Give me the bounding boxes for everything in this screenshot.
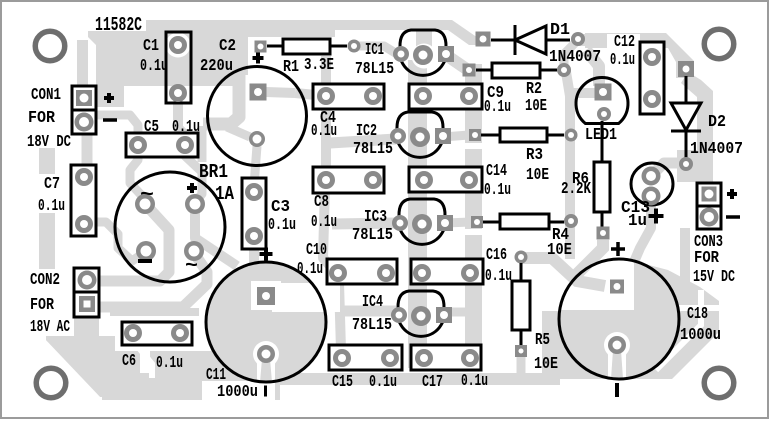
label C14 value (484, 181, 511, 200)
svg-text:0.1u: 0.1u (156, 354, 183, 373)
white clearance around IC1 center pad (412, 44, 437, 69)
svg-text:~: ~ (140, 184, 154, 207)
label C12 value (610, 51, 635, 70)
svg-text:C7: C7 (44, 175, 60, 194)
svg-text:0.1u: 0.1u (297, 260, 323, 279)
label C18 minus tick (615, 383, 619, 397)
wire left cap column C4-C8 (321, 56, 331, 176)
mounting hole top-right (704, 29, 734, 59)
label R4 (552, 226, 569, 245)
svg-text:C2: C2 (219, 37, 236, 56)
label IC4 (362, 293, 383, 312)
capacitor C4 (313, 84, 384, 109)
resistor R2 (463, 63, 572, 78)
wire C13 bottom pad down to C18 interior (634, 198, 651, 262)
wire rail stub to C17 left pad (413, 353, 424, 363)
label C5 (144, 118, 159, 137)
wire CON2 bottom pad to BR1 AC2 pad (99, 256, 207, 307)
wire pour stub to R2 left pad (449, 57, 468, 70)
svg-text:0.1u: 0.1u (172, 118, 200, 137)
svg-text:78L15: 78L15 (355, 60, 394, 79)
wire stub to IC3 in pad (332, 223, 396, 224)
label board number 11582C (95, 14, 142, 36)
mounting hole top-left (35, 31, 65, 61)
wire C13 top pad to D2 ring node (655, 163, 708, 172)
svg-text:C10: C10 (306, 241, 327, 260)
svg-text:1A: 1A (215, 183, 234, 205)
label C4 value (311, 122, 337, 141)
label C18 (687, 305, 708, 324)
label C18 plus (611, 242, 625, 256)
label CON3 plus (727, 189, 737, 199)
copper bottom strip right under C18 (542, 311, 719, 379)
svg-text:D1: D1 (550, 21, 570, 40)
label C11 value (217, 383, 267, 402)
label IC3 value (352, 226, 393, 245)
copper pour stub into IC1 center pad (416, 28, 432, 56)
svg-text:1N4007: 1N4007 (549, 48, 601, 67)
capacitor C8 (313, 167, 384, 193)
connector CON3 (697, 183, 721, 229)
svg-text:0.1u: 0.1u (140, 57, 168, 76)
label BR1 ac1 tilde (140, 184, 154, 207)
resistor R4 (471, 214, 578, 229)
white corner cut bottom-left (44, 338, 102, 399)
copper bottom strip thick left (102, 373, 280, 400)
label C4 (320, 109, 336, 128)
label C9 value (484, 98, 511, 117)
capacitor C7 (71, 165, 96, 236)
wire IC4 out to rail (444, 308, 470, 317)
label C6 value (156, 354, 183, 373)
wire R5 bottom pad to bottom rail (517, 356, 526, 376)
label R1 value (304, 56, 334, 75)
svg-text:CON1: CON1 (31, 86, 61, 105)
svg-text:11582C: 11582C (95, 14, 142, 36)
svg-text:78L15: 78L15 (353, 140, 393, 159)
svg-text:FOR: FOR (694, 249, 720, 268)
capacitor C17 (411, 345, 481, 370)
svg-text:18V AC: 18V AC (30, 318, 70, 337)
white window around C11 value label (202, 381, 275, 400)
diode D2 (671, 61, 701, 171)
svg-text:C1: C1 (143, 37, 159, 56)
capacitor C1 (166, 32, 192, 103)
wire C3 bottom pad down (249, 248, 259, 266)
capacitor C9 (409, 84, 482, 109)
op-amp regulator IC3 78L15 (392, 199, 453, 244)
copper pour stub to C12 top pad (644, 46, 660, 57)
label R1 (283, 58, 299, 77)
label CON2 18V AC (30, 318, 70, 337)
svg-text:1000u: 1000u (217, 383, 258, 402)
copper rail right segment 2 (465, 149, 482, 229)
label IC2 value (353, 140, 393, 159)
label C3 (271, 198, 290, 217)
svg-text:R3: R3 (526, 146, 543, 165)
svg-text:3.3E: 3.3E (304, 56, 334, 75)
svg-text:2.2K: 2.2K (561, 180, 592, 199)
capacitor C5 (126, 133, 198, 157)
wire C5 left pad down to BR1 AC1 pad (130, 146, 144, 198)
capacitor C2 interior traces (202, 68, 295, 186)
copper pour above C6 (110, 308, 199, 316)
label C13 plus (649, 209, 664, 224)
svg-text:78L15: 78L15 (352, 226, 393, 245)
svg-text:1000u: 1000u (680, 326, 721, 345)
svg-text:C12: C12 (614, 33, 635, 52)
label CON1 FOR (28, 109, 56, 128)
wire BR1 plus pad down to C11 plus (195, 210, 237, 266)
svg-text:FOR: FOR (28, 109, 56, 128)
label BR1 1A (215, 183, 234, 205)
svg-text:0.1u: 0.1u (461, 372, 488, 391)
label C10 (306, 241, 327, 260)
copper pour strip down right (to CON3) (681, 72, 713, 196)
wire IC1 out to R2 (446, 56, 461, 67)
label CON1 minus (103, 118, 117, 122)
resistor R3 (469, 128, 578, 142)
white channel right of C6 (139, 348, 152, 378)
wire CON1 plus pad strip up to pour (77, 40, 88, 86)
wire CON1 minus pad to BR1 (88, 115, 138, 152)
label CON1 18V DC (27, 133, 71, 152)
svg-text:1u: 1u (628, 212, 647, 231)
label R3 value (526, 166, 549, 185)
label C3 value (268, 216, 296, 235)
svg-text:C3: C3 (271, 198, 290, 217)
svg-text:18V DC: 18V DC (27, 133, 71, 152)
label C13 (621, 199, 650, 218)
svg-text:R5: R5 (535, 331, 550, 350)
label CON3 (694, 233, 723, 252)
label C10 value (297, 260, 323, 279)
label C7 (44, 175, 60, 194)
svg-text:FOR: FOR (30, 296, 55, 315)
label BR1 (199, 161, 228, 183)
label C7 value (38, 197, 65, 216)
wire C5 right pad down to BR1 plus pad (185, 146, 202, 201)
wire C2 pad to C4 left pad (295, 93, 326, 96)
copper pour band right (net rectified+) (585, 33, 694, 78)
label D1 value (549, 48, 601, 67)
svg-text:0.1u: 0.1u (610, 51, 635, 70)
svg-text:0.1u: 0.1u (311, 213, 337, 232)
mounting hole bottom-left (36, 368, 66, 398)
svg-text:10E: 10E (547, 241, 572, 260)
svg-text:R1: R1 (283, 58, 299, 77)
label R6 value (561, 180, 592, 199)
white window around C12 labels (607, 34, 640, 53)
label BR1 minus (138, 259, 152, 263)
label IC3 (364, 208, 387, 227)
wire IC2 out to R3 (443, 135, 469, 137)
white channel in C18 right pour (656, 290, 701, 370)
label BR1 plus (187, 183, 197, 193)
svg-text:D2: D2 (708, 113, 726, 132)
wire D1 cathode into band (578, 34, 592, 46)
capacitor C18 (559, 259, 679, 379)
label C1 value (140, 57, 168, 76)
label C15 (332, 373, 353, 392)
label CON2 FOR (30, 296, 55, 315)
label R6 (572, 170, 589, 189)
wire CON2 top pad to BR1 AC1 pad (99, 206, 169, 281)
capacitor C16 (411, 259, 483, 284)
label C8 (314, 193, 329, 212)
copper rail right segment 3 (465, 235, 482, 365)
svg-text:C5: C5 (144, 118, 159, 137)
label C16 (486, 246, 507, 265)
label C6 (122, 352, 136, 371)
wire IC3 out to R4 (445, 222, 471, 223)
diode D1 (476, 25, 586, 55)
capacitor C18 copper interior (522, 240, 678, 379)
capacitor C13 (631, 163, 673, 206)
wire stub to IC4 in pad (340, 306, 396, 317)
svg-text:1N4007: 1N4007 (690, 140, 743, 159)
label CON3 minus (726, 215, 740, 219)
label C17 value (461, 372, 488, 391)
op-amp regulator IC1 78L15 (393, 30, 454, 75)
label IC2 (356, 122, 377, 141)
svg-text:78L15: 78L15 (352, 316, 392, 335)
LED LED1 (576, 77, 628, 123)
copper pour right of C18 upper (630, 260, 719, 305)
label C18 value (680, 326, 721, 345)
capacitor C2 (208, 67, 307, 166)
label CON3 FOR (694, 249, 720, 268)
label C16 value (485, 267, 512, 286)
copper pour bottom left block (46, 336, 140, 397)
label CON1 (31, 86, 61, 105)
copper bottom strip (102, 373, 560, 385)
label C8 value (311, 213, 337, 232)
copper strip left of CON3 (680, 228, 690, 302)
wire left margin trace segment 2 (39, 213, 55, 269)
svg-text:0.1u: 0.1u (369, 373, 397, 392)
label R5 value (534, 355, 558, 374)
svg-text:BR1: BR1 (199, 161, 228, 183)
label CON1 plus (104, 93, 114, 103)
label BR1 ac2 tilde (185, 255, 198, 278)
svg-text:0.1u: 0.1u (484, 181, 511, 200)
label C3 plus (260, 248, 273, 261)
wire C12 top pad into pour (646, 40, 658, 56)
svg-text:0.1u: 0.1u (485, 267, 512, 286)
svg-text:C18: C18 (687, 305, 708, 324)
label C17 (422, 373, 443, 392)
label C12 (614, 33, 635, 52)
bridge rectifier BR1 (115, 172, 225, 282)
label R3 (526, 146, 543, 165)
capacitor C11 copper interior (208, 264, 341, 384)
svg-text:0.1u: 0.1u (311, 122, 337, 141)
wire output rail R2-R3-R4 down to C18 (566, 72, 570, 268)
capacitor C12 (640, 42, 664, 114)
svg-text:220u: 220u (200, 57, 233, 76)
label D2 (708, 113, 726, 132)
svg-text:10E: 10E (525, 97, 547, 116)
svg-text:10E: 10E (534, 355, 558, 374)
wire C7 bottom pad to BR1 minus pad (96, 222, 145, 261)
label IC1 (365, 41, 384, 60)
copper rail right segment 1 (465, 64, 482, 143)
label R2 value (525, 97, 547, 116)
label CON2 (30, 271, 60, 290)
label C2 plus (253, 53, 264, 64)
label C11 (206, 366, 226, 385)
capacitor C2 plus pad (255, 41, 267, 53)
label R2 (526, 80, 542, 99)
capacitor C15 (329, 345, 402, 370)
wire left margin trace segment 1 (39, 148, 55, 174)
capacitor C14 (409, 167, 482, 192)
wire R2 right pad up to D1 pad (564, 41, 577, 68)
resistor R5 (512, 251, 530, 358)
svg-text:~: ~ (185, 255, 198, 278)
label CON3 15V DC (693, 268, 735, 287)
capacitor C6 (122, 322, 192, 345)
wire C1 bottom pad down to C5 (178, 96, 184, 134)
white clearance around C12 top pad (640, 45, 665, 70)
svg-text:C6: C6 (122, 352, 136, 371)
wire R1 right pad to IC1 left pad (353, 46, 397, 54)
svg-text:C15: C15 (332, 373, 353, 392)
label IC4 value (352, 316, 392, 335)
connector CON1 (72, 86, 96, 134)
copper pour right of C6 (150, 351, 280, 373)
svg-text:0.1u: 0.1u (38, 197, 65, 216)
label C13 value (628, 212, 647, 231)
wire left cap column C10-C15 (339, 283, 341, 350)
label C2 (219, 37, 236, 56)
label R4 value (547, 241, 572, 260)
connector CON2 (74, 268, 99, 317)
mounting hole bottom-right (704, 368, 734, 398)
capacitor C10 (327, 259, 397, 284)
label D2 value (690, 140, 743, 159)
capacitor C11 (206, 262, 326, 382)
svg-text:15V DC: 15V DC (693, 268, 735, 287)
wire stub to IC2 in pad (330, 139, 396, 143)
svg-text:C16: C16 (486, 246, 507, 265)
label R5 (535, 331, 550, 350)
wire left cap column C8-C10 (323, 186, 332, 268)
svg-text:C17: C17 (422, 373, 443, 392)
op-amp regulator IC2 78L15 (390, 112, 451, 157)
svg-text:IC3: IC3 (364, 208, 387, 227)
white clearance around C6 (115, 316, 199, 351)
label LED1 (585, 126, 617, 145)
svg-text:IC4: IC4 (362, 293, 383, 312)
op-amp regulator IC4 78L15 (391, 291, 452, 336)
label IC1 value (355, 60, 394, 79)
copper rail vertical center (ground) (408, 60, 427, 368)
svg-text:C8: C8 (314, 193, 329, 212)
label C1 (143, 37, 159, 56)
svg-text:C14: C14 (486, 162, 507, 181)
copper pour top band (net +18V unregulated) (88, 20, 481, 107)
capacitor C3 (242, 178, 266, 249)
label C5 value (172, 118, 200, 137)
svg-text:IC2: IC2 (356, 122, 377, 141)
label C2 value (200, 57, 233, 76)
label C9 (487, 84, 504, 103)
resistor R1 (267, 39, 361, 54)
svg-text:IC1: IC1 (365, 41, 384, 60)
label C15 value (369, 373, 397, 392)
label D1 (550, 21, 570, 40)
label C14 (486, 162, 507, 181)
resistor R6 (594, 121, 610, 240)
wire node D to LED1 anode pad (586, 50, 599, 86)
copper pour stub under CON2 (74, 317, 99, 336)
wire pour lobe down to C7 top pad (82, 106, 93, 172)
svg-text:0.1u: 0.1u (484, 98, 511, 117)
wire LED1 anode pad stub left (570, 88, 596, 98)
copper pour right of C13 (677, 150, 713, 182)
svg-text:0.1u: 0.1u (268, 216, 296, 235)
svg-text:CON2: CON2 (30, 271, 60, 290)
svg-text:10E: 10E (526, 166, 549, 185)
